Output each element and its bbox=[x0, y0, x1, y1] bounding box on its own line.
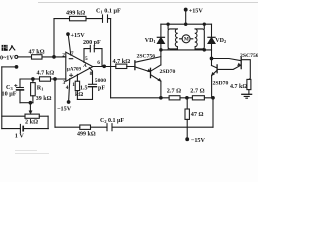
wire 5000pF bottom bbox=[77, 87, 92, 99]
resistor 4.7k base bbox=[116, 64, 127, 68]
wire lower terminal to left rail bbox=[2, 66, 15, 68]
svg-text:2SC756: 2SC756 bbox=[137, 53, 156, 59]
wire feedback right vertical to bottom rail bbox=[110, 19, 112, 98]
battery 1V bbox=[2, 128, 49, 130]
wire 1.5k bottom bbox=[76, 91, 78, 100]
node pin2 junction bbox=[53, 56, 56, 59]
op-amp plus sign bbox=[70, 74, 73, 77]
ground bbox=[242, 93, 252, 95]
motor M bbox=[182, 35, 190, 43]
svg-text:499 kΩ: 499 kΩ bbox=[66, 10, 85, 17]
pin 5 lead bbox=[83, 49, 85, 63]
resistor 499k bottom bbox=[80, 125, 91, 129]
svg-text:M: M bbox=[184, 37, 189, 43]
resistor 47k bbox=[32, 55, 43, 59]
svg-text:4.7 kΩ: 4.7 kΩ bbox=[113, 58, 131, 65]
wire right collector vertical bbox=[211, 50, 213, 66]
label input chinese ru bbox=[9, 45, 15, 51]
op-amp minus sign bbox=[69, 58, 72, 60]
svg-text:VD1: VD1 bbox=[145, 38, 156, 44]
resistor 4.7k right bbox=[247, 79, 251, 89]
+15V terminal bbox=[184, 8, 187, 11]
resistor 2.7 ohm left bbox=[169, 96, 180, 100]
terminal -15V bottom bbox=[186, 138, 189, 141]
capacitor C2 0.1uF bbox=[107, 124, 112, 131]
svg-text:1.5: 1.5 bbox=[80, 86, 88, 92]
wire Q3 emitter to 4.7k bbox=[242, 60, 251, 80]
wire 4.7k to ground bbox=[248, 90, 250, 95]
input terminal upper bbox=[15, 55, 18, 58]
pin 8 lead bbox=[89, 68, 92, 84]
svg-text:7: 7 bbox=[71, 51, 74, 57]
wire 200pF to output bbox=[101, 49, 103, 67]
wire C3/R1 bottom bbox=[20, 102, 33, 104]
svg-text:VD2: VD2 bbox=[215, 38, 226, 44]
wire base to Q3 bbox=[212, 59, 241, 61]
transistor Q1 emitter bbox=[135, 67, 150, 72]
svg-text:4.7 kΩ: 4.7 kΩ bbox=[230, 84, 247, 90]
diode VD2 bbox=[211, 24, 213, 37]
node left coil top bbox=[167, 23, 169, 25]
input terminal lower bbox=[15, 66, 18, 69]
pin 4 lead -15V bbox=[69, 79, 70, 102]
svg-text:0~1V: 0~1V bbox=[0, 54, 14, 61]
wire bottom feedback right vertical bbox=[212, 98, 214, 127]
svg-text:2 kΩ: 2 kΩ bbox=[25, 118, 38, 125]
wire pot right lead bbox=[39, 115, 48, 117]
transistor Q4 2SD70 base bar bbox=[216, 65, 218, 73]
svg-text:−15V: −15V bbox=[57, 106, 72, 113]
node left coil bottom bbox=[160, 49, 162, 51]
wire emitter to rail bbox=[160, 81, 162, 98]
capacitor 5000pF plates bbox=[89, 83, 97, 85]
transistor Q2 emitter bbox=[151, 75, 161, 81]
svg-text:6: 6 bbox=[97, 60, 100, 66]
svg-text:499 kΩ: 499 kΩ bbox=[77, 132, 96, 138]
wire motor leads bbox=[180, 38, 193, 40]
node rail center bbox=[185, 23, 187, 25]
wire top feedback horizontal bbox=[54, 18, 111, 20]
node rail right bbox=[212, 97, 215, 100]
svg-text:+15V: +15V bbox=[71, 32, 86, 39]
node output junction bbox=[103, 65, 106, 68]
svg-text:2: 2 bbox=[62, 52, 65, 58]
svg-text:μA709: μA709 bbox=[67, 67, 81, 72]
transistor Q4 emitter diag bbox=[212, 70, 217, 75]
node right base junction bbox=[210, 57, 213, 60]
wire feedback left vertical bbox=[53, 19, 55, 57]
diode VD1 bbox=[160, 24, 162, 37]
pin 1 lead bbox=[76, 74, 78, 81]
wire 47ohm to -15V bbox=[186, 119, 188, 139]
svg-text:2.7 Ω: 2.7 Ω bbox=[167, 87, 181, 94]
transistor Q2 collector bbox=[151, 65, 161, 71]
C3 plus mark bbox=[15, 84, 17, 86]
transistor Q1 collector bbox=[135, 57, 161, 63]
inductor right coil bbox=[203, 24, 205, 50]
transistor Q4 collector diag bbox=[212, 66, 217, 68]
svg-text:2SD70: 2SD70 bbox=[213, 81, 229, 87]
node rail 47ohm bbox=[186, 97, 189, 100]
wire pot left lead bbox=[2, 115, 25, 117]
svg-text:5: 5 bbox=[85, 56, 88, 62]
wire Q4 emitter down bbox=[211, 75, 213, 98]
svg-text:2SC756: 2SC756 bbox=[240, 53, 258, 59]
svg-text:1: 1 bbox=[72, 82, 75, 88]
svg-text:8: 8 bbox=[90, 71, 93, 77]
wire Q4 to Q3 link bbox=[218, 65, 241, 69]
svg-text:39 kΩ: 39 kΩ bbox=[36, 96, 52, 102]
svg-text:47 Ω: 47 Ω bbox=[191, 111, 204, 118]
wire input to 47k bbox=[18, 56, 32, 58]
inductor left coil bbox=[167, 24, 169, 50]
node wiper top bbox=[29, 101, 32, 104]
resistor R1 39k bbox=[31, 83, 36, 96]
potentiometer 2k body bbox=[25, 114, 39, 118]
svg-text:5000: 5000 bbox=[95, 78, 106, 84]
wire pin3 vertical to bottom feedback bbox=[54, 79, 56, 127]
svg-text:2SD70: 2SD70 bbox=[160, 69, 176, 75]
potentiometer wiper arrow bbox=[29, 103, 31, 112]
wire bottom rail bbox=[111, 97, 213, 99]
transistor Q1 2SC756 base bar bbox=[134, 61, 136, 70]
wire top rail bbox=[161, 23, 212, 25]
resistor 47 ohm bbox=[186, 98, 188, 109]
svg-text:2.7 Ω: 2.7 Ω bbox=[190, 87, 204, 94]
transistor Q2 2SD70 base bar bbox=[150, 68, 152, 77]
wire bottom feedback bbox=[55, 126, 213, 128]
capacitor 200pF bbox=[84, 48, 102, 50]
svg-text:+15V: +15V bbox=[189, 7, 204, 14]
node R1 top bbox=[32, 78, 35, 81]
capacitor C3 10uF leads bbox=[19, 79, 21, 103]
wire 47k to pin2 bbox=[42, 56, 66, 58]
node right coil top bbox=[203, 23, 205, 25]
svg-text:−15V: −15V bbox=[191, 137, 206, 144]
svg-text:200 pF: 200 pF bbox=[83, 40, 101, 46]
label input chinese shu bbox=[2, 45, 8, 51]
svg-text:4.7 kΩ: 4.7 kΩ bbox=[37, 70, 55, 77]
node pin3 junction bbox=[54, 78, 57, 81]
svg-text:47 kΩ: 47 kΩ bbox=[29, 48, 45, 55]
svg-text:10 μF: 10 μF bbox=[2, 91, 17, 98]
capacitor C3 plates bbox=[17, 87, 24, 89]
node right coil bottom bbox=[203, 49, 205, 51]
resistor 2.7 ohm right bbox=[192, 96, 204, 100]
svg-text:C1 0.1 μF: C1 0.1 μF bbox=[96, 8, 121, 15]
svg-text:C2 0.1 μF: C2 0.1 μF bbox=[100, 118, 124, 124]
svg-text:R1: R1 bbox=[37, 85, 44, 92]
wire pin3 row bbox=[20, 78, 66, 80]
pin 7 lead +15V bbox=[68, 34, 71, 55]
resistor 1.5k bbox=[75, 81, 79, 90]
svg-text:kΩ: kΩ bbox=[75, 92, 83, 98]
resistor 499k top bbox=[70, 16, 87, 20]
wire R1 bottom bbox=[32, 79, 34, 103]
wire left coil bottom bbox=[161, 49, 212, 51]
svg-text:A: A bbox=[82, 63, 87, 69]
svg-text:1 V: 1 V bbox=[15, 132, 25, 139]
resistor 4.7k input bbox=[40, 77, 51, 81]
op-amp uA709 triangle bbox=[66, 52, 93, 81]
faint scan edge line top bbox=[38, 2, 258, 4]
wire battery right vertical bbox=[47, 116, 49, 128]
wire collectors to coil bbox=[160, 50, 162, 65]
wire left rail bbox=[1, 67, 3, 129]
svg-text:4: 4 bbox=[66, 85, 69, 91]
svg-text:pF: pF bbox=[98, 86, 105, 92]
wire output pin6 bbox=[93, 66, 135, 68]
capacitor C1 0.1uF bbox=[103, 15, 108, 22]
faint scan artifact lines bbox=[15, 151, 49, 154]
wire +15V down bbox=[185, 10, 187, 25]
node rail left emitter bbox=[160, 97, 163, 100]
transistor Q3 2SC756 base bar bbox=[240, 58, 242, 69]
